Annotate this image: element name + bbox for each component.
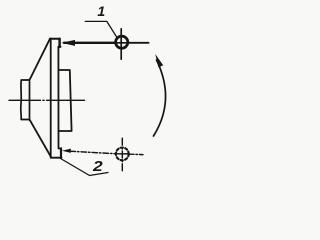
node rim inner edge [58,47,61,149]
wire dash-dot line position 2 [70,151,143,154]
wire cone bottom surface [30,120,52,158]
wire centerline of wheel axis [9,99,85,101]
svg-text:1: 1 [97,3,105,19]
node circle position 2 dashed [116,148,129,161]
svg-text:2: 2 [92,158,103,175]
node rim left edge [50,39,52,158]
wire leader line label 1 [85,21,117,38]
node vertical crosshair position 1 [120,29,122,59]
wire rotation arc [154,60,166,136]
node rim outer step [58,70,71,131]
wire arrow at wheel bottom edge [62,149,71,153]
wire leader line label 2 [60,158,108,176]
node circle position 1 [116,36,128,48]
node hub [21,79,30,120]
wire cone top surface [30,39,51,80]
node vertical crosshair position 2 [121,138,123,171]
node rim top cap [50,38,60,40]
wire rotation arrowhead [155,54,163,67]
wire horizontal line through position 1 [64,42,115,44]
wire arrow at wheel top edge [61,40,75,46]
